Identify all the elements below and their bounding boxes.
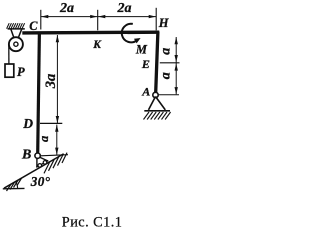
pin B [35,153,40,158]
incline line [4,154,64,188]
svg-text:30°: 30° [30,174,51,189]
tick above C [40,10,42,30]
rope [8,44,10,64]
svg-text:a: a [37,136,51,142]
arrow right at K [90,15,97,18]
tick at B [41,155,69,156]
svg-text:2a: 2a [117,1,132,16]
roller carriage legs [37,157,48,167]
arrow down to A [175,87,178,94]
ext line at A [159,94,180,96]
tick at D [40,122,62,124]
wire right bar H-A [156,32,158,93]
dim 3a line [56,35,58,123]
incline hatching wedge [7,178,22,191]
svg-text:E: E [141,57,150,71]
support triangle A [149,97,166,110]
arrow up to H bar [175,37,178,44]
svg-text:P: P [17,65,25,79]
angle arc 30 [16,182,18,189]
arrow up to D [55,125,58,132]
arrow left at C [41,15,48,18]
svg-text:Рис. С1.1: Рис. С1.1 [62,215,123,231]
ground line A [144,110,170,112]
wire top bar C-H [22,31,159,35]
svg-text:A: A [141,85,150,99]
svg-text:D: D [22,116,33,131]
svg-text:2a: 2a [59,1,74,16]
dim a right line (H-E, E-A) [175,37,177,94]
moment arrowhead [134,38,141,43]
svg-text:a: a [159,72,174,79]
svg-text:M: M [135,43,148,57]
dim line 2a+2a [41,16,156,18]
arrow down to B [55,148,58,155]
tick above H [155,8,157,31]
roller 2 [43,161,47,165]
wire left bar C-B [38,32,40,154]
svg-text:B: B [21,148,31,163]
carriage base [36,161,48,168]
pulley bracket [11,29,22,41]
arrow right at H [149,15,156,18]
arrow up to E [175,63,178,70]
ceiling line [8,28,25,30]
pin A [153,92,158,97]
dim a (D-B) line [56,125,58,155]
weight P box [5,64,14,77]
svg-text:C: C [29,19,38,33]
arrow up to bar [56,35,59,42]
svg-text:H: H [158,16,170,30]
arrow down to E [175,55,178,62]
tick at E [160,62,180,64]
ground baseline [3,187,25,189]
svg-text:K: K [92,39,102,51]
roller 1 [38,164,42,168]
arrow left at K [98,15,105,18]
svg-text:3a: 3a [43,74,59,90]
incline hatching upper [44,153,67,174]
pulley hub [14,42,18,46]
arrow down to D [56,116,59,123]
ground hatching A [144,112,171,120]
svg-text:a: a [159,48,174,55]
ceiling support hatching [7,23,25,29]
tick above K [97,10,99,31]
pulley wheel [9,37,23,51]
moment arc M [122,24,137,43]
